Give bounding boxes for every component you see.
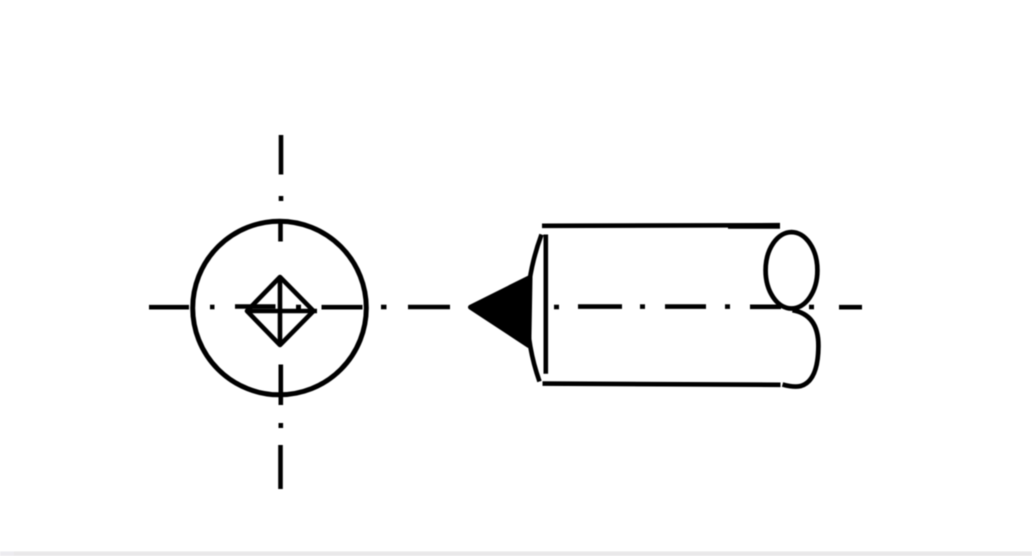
diamond vertical diagonal <box>278 277 283 345</box>
diamond horizontal diagonal <box>246 309 317 314</box>
diamond (center hole) <box>247 277 314 345</box>
cylinder bottom line <box>543 384 781 385</box>
right end ellipse <box>766 232 818 308</box>
right end lower arc <box>783 310 819 386</box>
cylinder top line <box>542 223 780 228</box>
cone tip (filled triangle) <box>471 278 531 346</box>
circle (end view outline) <box>193 221 367 395</box>
cylinder left end face line <box>543 235 548 374</box>
horizontal centerline <box>149 304 862 309</box>
cone base arc <box>527 235 541 382</box>
vertical centerline <box>278 135 283 489</box>
bottom scrollbar track <box>14 551 1032 556</box>
bottom scrollbar track left corner <box>0 551 14 556</box>
